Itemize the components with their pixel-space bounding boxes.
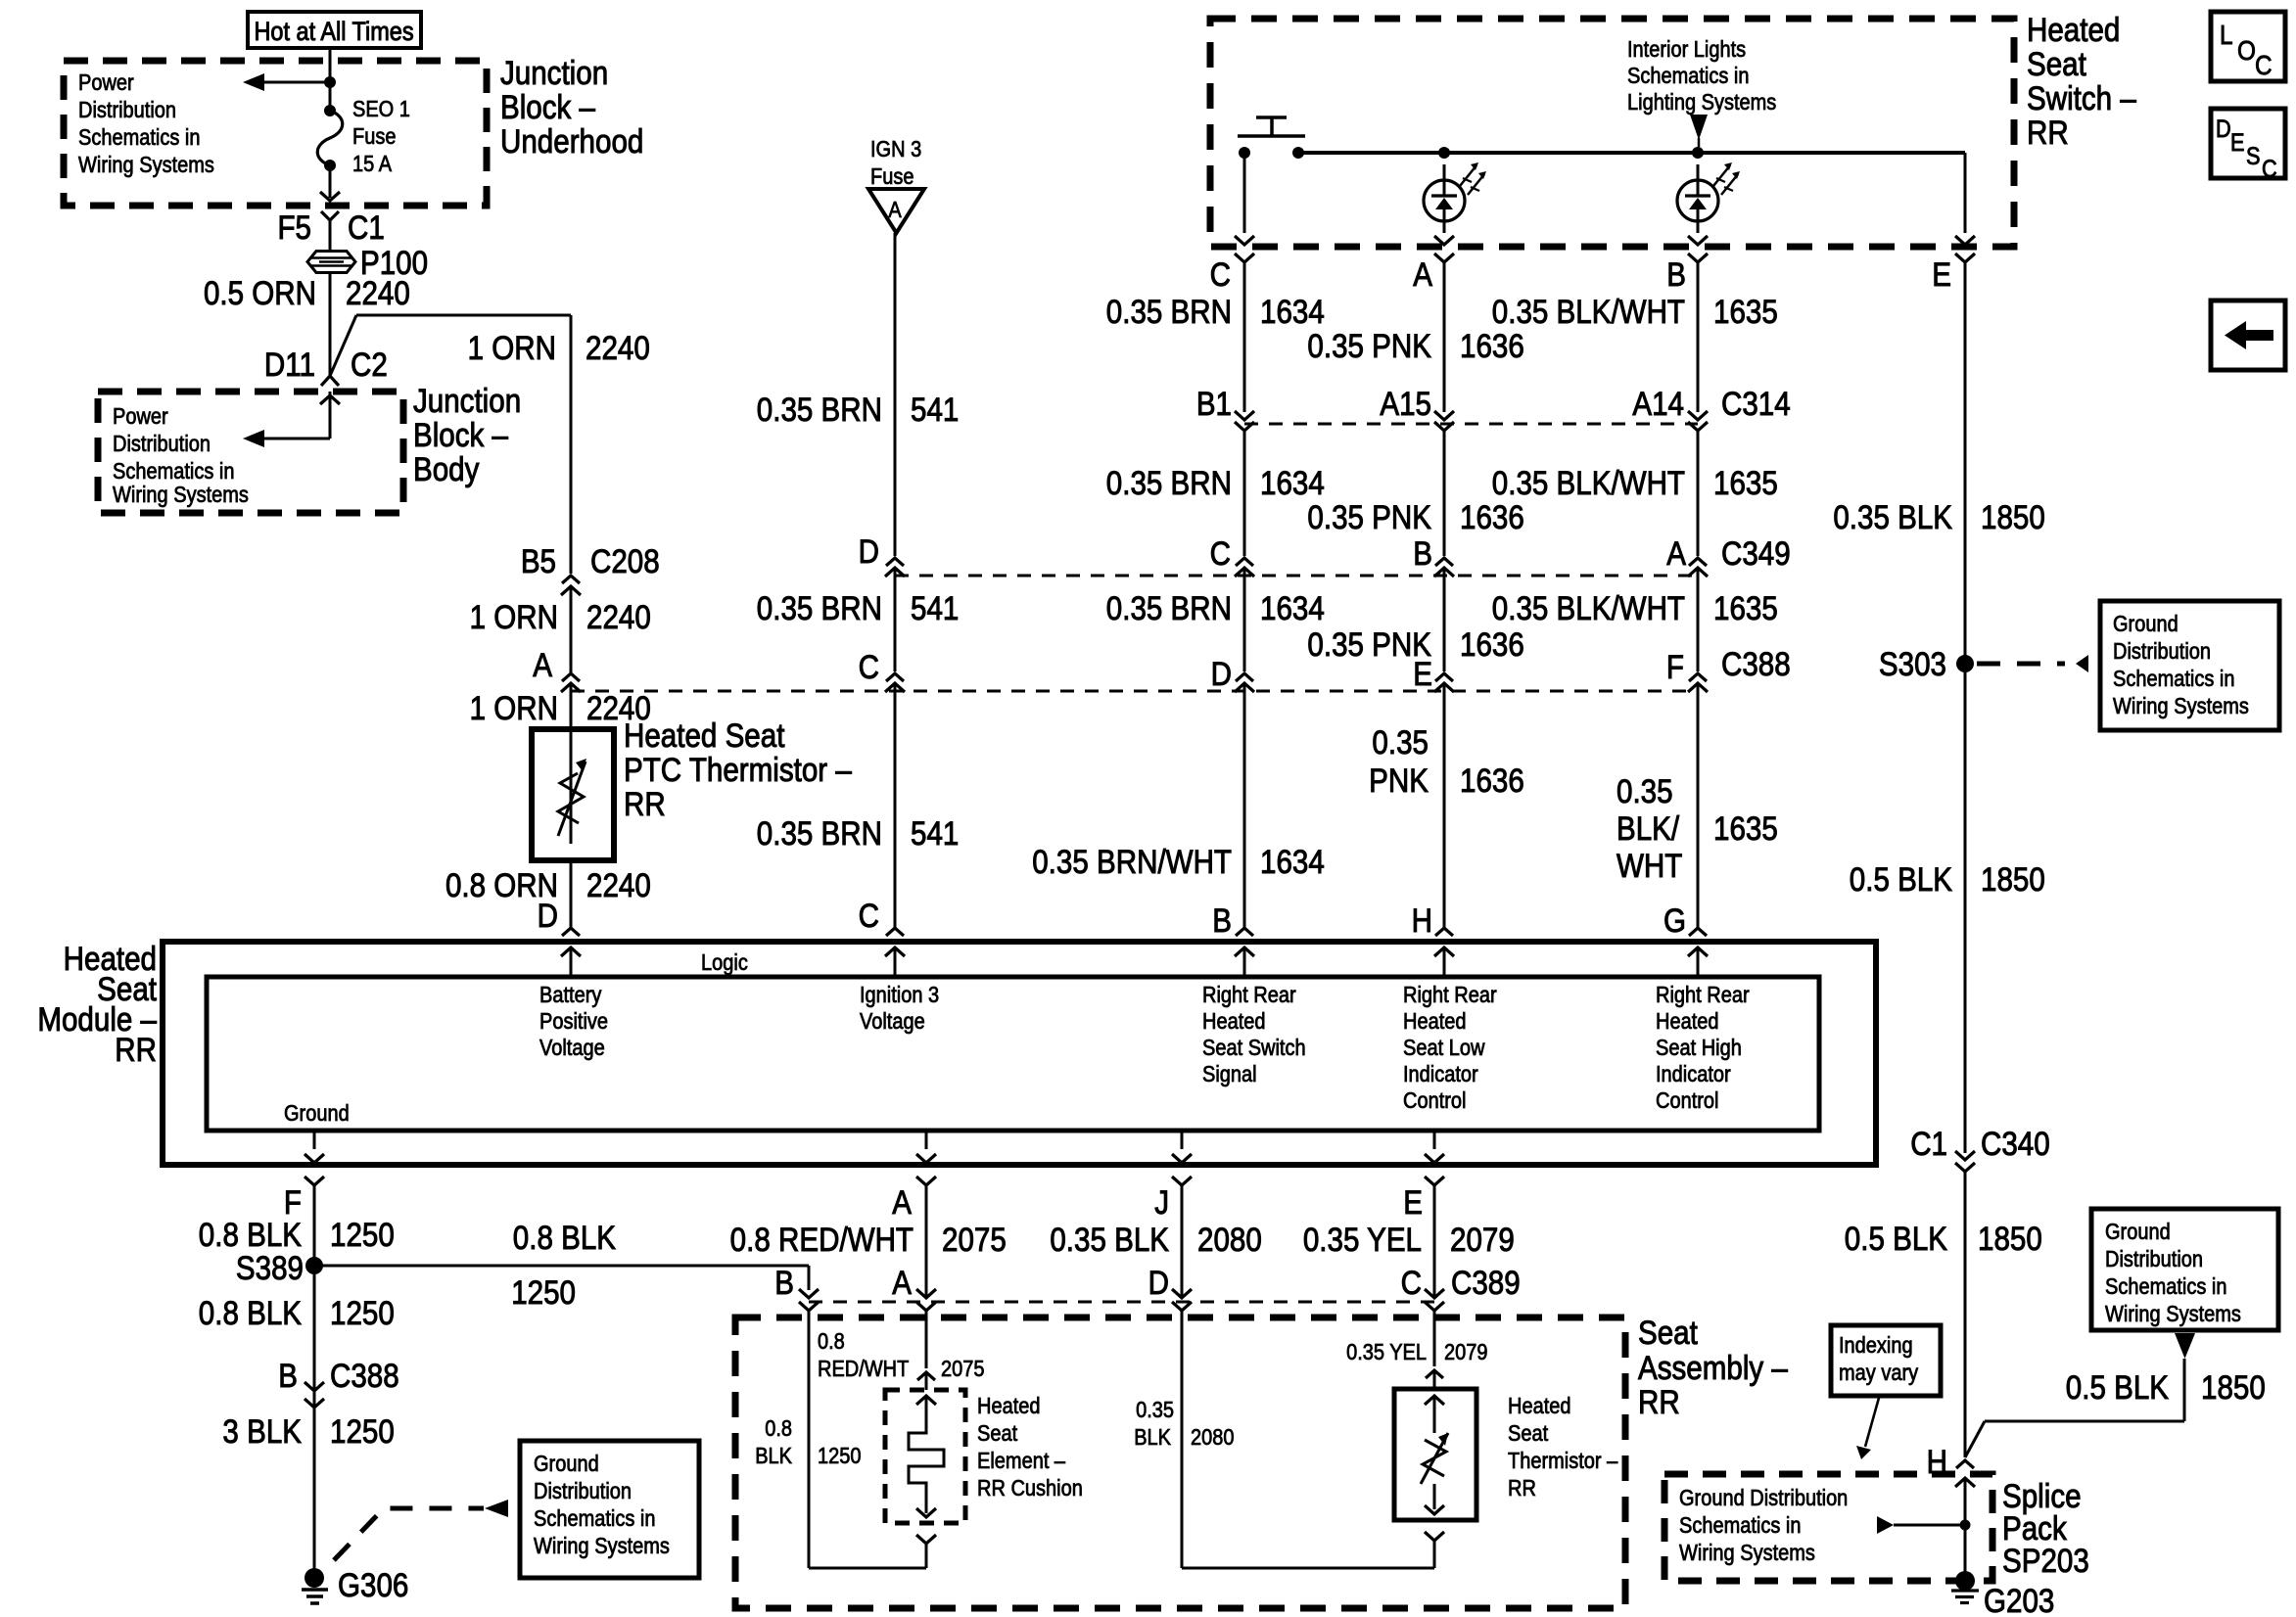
- svg-text:Heated: Heated: [2027, 11, 2120, 48]
- svg-text:Ground Distribution: Ground Distribution: [1679, 1485, 1848, 1511]
- svg-text:2075: 2075: [942, 1221, 1007, 1258]
- svg-text:2240: 2240: [586, 329, 650, 366]
- svg-text:B: B: [278, 1357, 298, 1394]
- svg-text:0.35 YEL: 0.35 YEL: [1346, 1339, 1427, 1365]
- svg-text:Wiring Systems: Wiring Systems: [2113, 693, 2249, 719]
- svg-text:Seat: Seat: [1508, 1420, 1548, 1447]
- svg-text:B1: B1: [1196, 385, 1232, 422]
- svg-text:G: G: [1663, 901, 1686, 939]
- svg-text:Distribution: Distribution: [113, 431, 211, 457]
- svg-text:E: E: [1932, 255, 1951, 293]
- svg-text:C: C: [859, 648, 879, 685]
- svg-text:Wiring Systems: Wiring Systems: [78, 152, 214, 178]
- svg-text:Distribution: Distribution: [78, 97, 176, 123]
- svg-text:0.35 BRN: 0.35 BRN: [757, 391, 882, 428]
- svg-text:Control: Control: [1403, 1087, 1466, 1114]
- svg-text:A: A: [1413, 255, 1432, 293]
- svg-text:A: A: [892, 1264, 912, 1301]
- svg-text:D: D: [1148, 1264, 1169, 1301]
- svg-text:Voltage: Voltage: [539, 1035, 605, 1061]
- svg-text:541: 541: [911, 391, 959, 428]
- svg-text:1636: 1636: [1460, 498, 1524, 535]
- svg-text:Schematics in: Schematics in: [78, 124, 201, 151]
- svg-text:Heated: Heated: [1508, 1393, 1570, 1419]
- svg-text:Schematics in: Schematics in: [1679, 1512, 1802, 1539]
- svg-text:D11: D11: [264, 346, 315, 383]
- svg-text:RR: RR: [115, 1031, 157, 1068]
- svg-text:D: D: [859, 532, 879, 570]
- svg-text:S303: S303: [1879, 645, 1946, 682]
- svg-text:1635: 1635: [1713, 293, 1778, 330]
- svg-text:D: D: [2216, 115, 2231, 143]
- svg-text:Fuse: Fuse: [870, 163, 914, 190]
- svg-text:541: 541: [911, 814, 959, 852]
- svg-text:Heated: Heated: [1202, 1008, 1265, 1035]
- svg-text:Interior Lights: Interior Lights: [1627, 36, 1746, 63]
- svg-text:BLK: BLK: [755, 1443, 792, 1469]
- svg-text:Ground: Ground: [2113, 611, 2179, 637]
- svg-text:Voltage: Voltage: [860, 1008, 925, 1035]
- svg-text:C388: C388: [330, 1357, 399, 1394]
- svg-text:C314: C314: [1721, 385, 1791, 422]
- svg-text:1850: 1850: [1981, 860, 2045, 898]
- svg-text:Wiring Systems: Wiring Systems: [113, 482, 249, 508]
- svg-text:Right Rear: Right Rear: [1202, 982, 1296, 1008]
- svg-text:C2: C2: [351, 346, 388, 383]
- svg-text:Assembly –: Assembly –: [1638, 1349, 1788, 1386]
- svg-text:0.35 PNK: 0.35 PNK: [1307, 327, 1431, 364]
- svg-text:2080: 2080: [1197, 1221, 1262, 1258]
- svg-text:H: H: [1412, 901, 1432, 939]
- svg-text:Battery: Battery: [539, 982, 602, 1008]
- svg-text:1634: 1634: [1260, 843, 1325, 880]
- svg-text:C: C: [1210, 255, 1231, 293]
- svg-text:Distribution: Distribution: [534, 1478, 632, 1504]
- svg-text:B: B: [1212, 901, 1232, 939]
- svg-text:1850: 1850: [2201, 1368, 2266, 1406]
- svg-text:1250: 1250: [330, 1216, 395, 1253]
- svg-text:RR: RR: [1638, 1383, 1680, 1420]
- svg-text:2240: 2240: [346, 274, 410, 311]
- svg-text:C: C: [859, 897, 879, 934]
- svg-text:may vary: may vary: [1839, 1360, 1918, 1386]
- svg-text:0.8: 0.8: [818, 1328, 845, 1355]
- svg-text:0.35 BRN: 0.35 BRN: [1106, 589, 1232, 626]
- svg-text:C: C: [2255, 49, 2273, 80]
- svg-text:F5: F5: [277, 208, 311, 246]
- svg-text:Ground: Ground: [534, 1451, 599, 1477]
- svg-text:Indicator: Indicator: [1656, 1061, 1731, 1087]
- svg-text:3 BLK: 3 BLK: [222, 1412, 302, 1450]
- svg-text:0.5 ORN: 0.5 ORN: [204, 274, 316, 311]
- svg-text:E: E: [1413, 655, 1432, 692]
- svg-text:B: B: [1413, 534, 1432, 572]
- svg-text:Signal: Signal: [1202, 1061, 1257, 1087]
- svg-text:1634: 1634: [1260, 464, 1325, 501]
- svg-text:Wiring Systems: Wiring Systems: [2105, 1301, 2241, 1327]
- svg-text:1634: 1634: [1260, 589, 1325, 626]
- svg-text:Lighting Systems: Lighting Systems: [1627, 89, 1776, 115]
- svg-text:541: 541: [911, 589, 959, 626]
- svg-text:1250: 1250: [330, 1294, 395, 1331]
- svg-text:0.5 BLK: 0.5 BLK: [1850, 860, 1952, 898]
- svg-text:RR: RR: [1508, 1475, 1536, 1501]
- svg-text:C: C: [2262, 156, 2277, 183]
- svg-text:Heated: Heated: [1656, 1008, 1718, 1035]
- svg-text:0.35 BRN: 0.35 BRN: [1106, 464, 1232, 501]
- svg-text:0.35: 0.35: [1136, 1397, 1174, 1423]
- svg-text:G306: G306: [338, 1566, 408, 1603]
- svg-text:0.35: 0.35: [1617, 772, 1673, 809]
- svg-text:Schematics in: Schematics in: [2105, 1273, 2227, 1300]
- svg-text:0.35 BLK: 0.35 BLK: [1050, 1221, 1169, 1258]
- svg-text:A: A: [888, 197, 902, 223]
- svg-text:Ground: Ground: [2105, 1219, 2171, 1245]
- svg-text:Hot at All Times: Hot at All Times: [254, 18, 413, 47]
- svg-text:0.35 BRN/WHT: 0.35 BRN/WHT: [1032, 843, 1232, 880]
- svg-text:RR: RR: [2027, 114, 2069, 151]
- svg-text:C349: C349: [1721, 534, 1791, 572]
- svg-text:1 ORN: 1 ORN: [470, 689, 558, 726]
- svg-text:Seat Switch: Seat Switch: [1202, 1035, 1306, 1061]
- svg-text:Heated Seat: Heated Seat: [624, 716, 785, 754]
- svg-text:C340: C340: [1981, 1125, 2050, 1162]
- svg-text:D: D: [538, 897, 558, 934]
- svg-text:A14: A14: [1632, 385, 1684, 422]
- svg-text:IGN 3: IGN 3: [870, 136, 921, 162]
- svg-text:Control: Control: [1656, 1087, 1718, 1114]
- svg-text:Schematics in: Schematics in: [2113, 666, 2235, 692]
- svg-text:S: S: [2246, 143, 2261, 170]
- svg-text:C208: C208: [590, 542, 660, 579]
- svg-text:C1: C1: [1910, 1125, 1947, 1162]
- svg-text:1 ORN: 1 ORN: [468, 329, 556, 366]
- svg-text:0.35 BRN: 0.35 BRN: [757, 814, 882, 852]
- svg-text:Seat: Seat: [1638, 1314, 1698, 1351]
- svg-text:Power: Power: [113, 403, 168, 430]
- svg-text:1 ORN: 1 ORN: [470, 598, 558, 635]
- svg-text:E: E: [1403, 1183, 1423, 1221]
- svg-text:2079: 2079: [1450, 1221, 1515, 1258]
- svg-text:Wiring Systems: Wiring Systems: [534, 1533, 670, 1559]
- svg-text:Positive: Positive: [539, 1008, 608, 1035]
- svg-text:Underhood: Underhood: [500, 122, 643, 160]
- svg-text:B: B: [1666, 255, 1686, 293]
- svg-text:1636: 1636: [1460, 327, 1524, 364]
- svg-text:2075: 2075: [941, 1356, 985, 1382]
- svg-text:Heated: Heated: [1403, 1008, 1466, 1035]
- svg-text:Element –: Element –: [977, 1448, 1065, 1474]
- svg-text:Wiring Systems: Wiring Systems: [1679, 1540, 1815, 1566]
- svg-text:0.8 BLK: 0.8 BLK: [513, 1219, 616, 1256]
- svg-text:Block –: Block –: [413, 416, 508, 453]
- svg-text:G203: G203: [1984, 1582, 2054, 1617]
- svg-text:0.8 BLK: 0.8 BLK: [199, 1294, 302, 1331]
- svg-text:J: J: [1154, 1183, 1169, 1221]
- svg-text:A: A: [892, 1183, 912, 1221]
- svg-text:15 A: 15 A: [352, 151, 393, 177]
- svg-text:SP203: SP203: [2002, 1542, 2089, 1579]
- svg-text:Heated: Heated: [977, 1393, 1040, 1419]
- svg-text:Seat: Seat: [2027, 45, 2086, 82]
- svg-text:0.8: 0.8: [765, 1415, 792, 1442]
- svg-text:Switch –: Switch –: [2027, 79, 2136, 116]
- svg-text:D: D: [1211, 655, 1232, 692]
- svg-text:A: A: [1666, 534, 1686, 572]
- svg-text:1635: 1635: [1713, 589, 1778, 626]
- svg-text:1850: 1850: [1981, 498, 2045, 535]
- svg-text:Distribution: Distribution: [2105, 1246, 2203, 1272]
- svg-text:C388: C388: [1721, 645, 1791, 682]
- svg-text:Thermistor –: Thermistor –: [1508, 1448, 1617, 1474]
- svg-text:Seat: Seat: [977, 1420, 1017, 1447]
- svg-text:Logic: Logic: [701, 949, 748, 976]
- svg-text:BLK/: BLK/: [1617, 809, 1679, 847]
- svg-text:2080: 2080: [1191, 1424, 1235, 1451]
- svg-text:0.5 BLK: 0.5 BLK: [2066, 1368, 2169, 1406]
- svg-text:2240: 2240: [586, 866, 651, 903]
- svg-text:Block –: Block –: [500, 88, 595, 125]
- svg-text:C1: C1: [348, 208, 385, 246]
- svg-text:Indicator: Indicator: [1403, 1061, 1478, 1087]
- svg-text:2240: 2240: [586, 598, 651, 635]
- svg-text:1634: 1634: [1260, 293, 1325, 330]
- svg-text:Junction: Junction: [500, 54, 608, 91]
- svg-text:Schematics in: Schematics in: [113, 458, 235, 485]
- svg-text:0.35: 0.35: [1372, 723, 1429, 761]
- svg-text:Schematics in: Schematics in: [534, 1505, 656, 1532]
- svg-text:L: L: [2220, 19, 2233, 50]
- svg-text:2079: 2079: [1444, 1339, 1487, 1365]
- svg-text:Junction: Junction: [413, 382, 521, 419]
- svg-text:Power: Power: [78, 69, 134, 96]
- svg-text:1636: 1636: [1460, 762, 1524, 799]
- svg-text:1635: 1635: [1713, 464, 1778, 501]
- svg-text:1250: 1250: [330, 1412, 395, 1450]
- svg-text:0.35 BLK/WHT: 0.35 BLK/WHT: [1492, 293, 1685, 330]
- svg-text:A: A: [533, 646, 552, 683]
- svg-text:1250: 1250: [818, 1443, 862, 1469]
- svg-text:C: C: [1210, 534, 1231, 572]
- svg-text:E: E: [2230, 129, 2245, 157]
- svg-text:F: F: [1666, 648, 1684, 685]
- svg-text:0.35 BLK: 0.35 BLK: [1833, 498, 1952, 535]
- svg-text:B: B: [774, 1264, 794, 1301]
- svg-text:Fuse: Fuse: [352, 123, 396, 150]
- svg-text:RR Cushion: RR Cushion: [977, 1475, 1083, 1501]
- svg-text:O: O: [2237, 34, 2256, 66]
- svg-text:Seat Low: Seat Low: [1403, 1035, 1485, 1061]
- svg-text:0.35 BRN: 0.35 BRN: [1106, 293, 1232, 330]
- svg-text:Ignition 3: Ignition 3: [860, 982, 939, 1008]
- svg-text:0.5 BLK: 0.5 BLK: [1845, 1220, 1947, 1257]
- svg-text:1635: 1635: [1713, 809, 1778, 847]
- svg-text:Body: Body: [413, 450, 479, 487]
- svg-text:1250: 1250: [511, 1273, 576, 1311]
- svg-text:0.35 BLK/WHT: 0.35 BLK/WHT: [1492, 589, 1685, 626]
- svg-text:1850: 1850: [1978, 1220, 2042, 1257]
- svg-text:Schematics in: Schematics in: [1627, 63, 1750, 89]
- svg-text:0.8 BLK: 0.8 BLK: [199, 1216, 302, 1253]
- svg-text:0.35 YEL: 0.35 YEL: [1303, 1221, 1422, 1258]
- svg-text:A15: A15: [1380, 385, 1431, 422]
- svg-text:S389: S389: [236, 1249, 304, 1286]
- svg-text:Distribution: Distribution: [2113, 638, 2211, 665]
- svg-text:WHT: WHT: [1617, 847, 1682, 884]
- svg-text:Right Rear: Right Rear: [1403, 982, 1497, 1008]
- svg-text:Indexing: Indexing: [1839, 1332, 1913, 1359]
- svg-text:0.35 PNK: 0.35 PNK: [1307, 498, 1431, 535]
- svg-text:RR: RR: [624, 785, 666, 822]
- svg-text:SEO 1: SEO 1: [352, 96, 410, 122]
- svg-text:BLK: BLK: [1134, 1424, 1171, 1451]
- svg-text:C: C: [1401, 1264, 1422, 1301]
- svg-text:1636: 1636: [1460, 625, 1524, 663]
- svg-text:C389: C389: [1451, 1264, 1521, 1301]
- svg-text:Right Rear: Right Rear: [1656, 982, 1750, 1008]
- svg-text:Seat High: Seat High: [1656, 1035, 1742, 1061]
- svg-text:0.8 RED/WHT: 0.8 RED/WHT: [730, 1221, 914, 1258]
- svg-text:0.35 BRN: 0.35 BRN: [757, 589, 882, 626]
- svg-text:RED/WHT: RED/WHT: [818, 1356, 909, 1382]
- svg-text:Ground: Ground: [284, 1100, 350, 1127]
- svg-text:PTC Thermistor –: PTC Thermistor –: [624, 751, 852, 788]
- svg-text:0.35 BLK/WHT: 0.35 BLK/WHT: [1492, 464, 1685, 501]
- svg-text:PNK: PNK: [1369, 762, 1429, 799]
- svg-text:B5: B5: [521, 542, 556, 579]
